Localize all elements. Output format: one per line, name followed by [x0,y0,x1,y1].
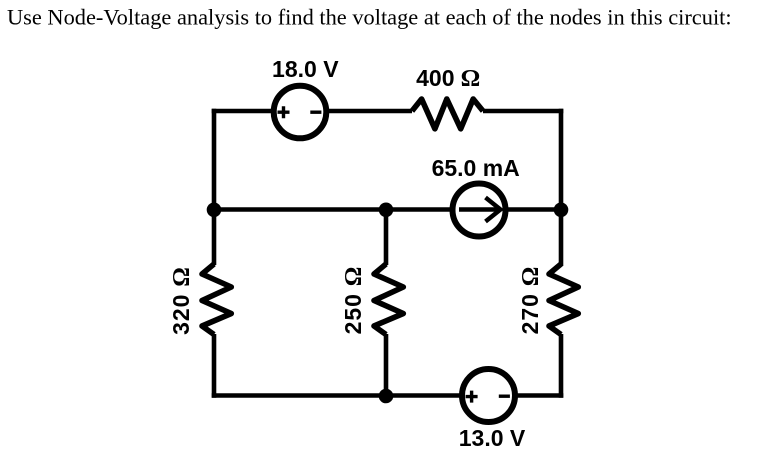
resistor R 250 ohm (middle, vertical zigzag) [374,264,403,335]
node A (left middle junction) [207,203,222,218]
I1 arrow head [486,198,501,222]
node D (bottom center junction) [379,389,394,404]
wire right vertical lower (R 270 down to bottom-right corner) [559,334,564,398]
wire bottom right (V2 to bottom-right corner) [515,393,563,398]
wire left vertical lower (R 320 down to bottom-left corner) [212,334,217,398]
svg-text:320 Ω: 320 Ω [168,266,195,335]
svg-text:13.0 V: 13.0 V [459,425,526,451]
V2 plus sign [466,391,478,403]
svg-text:250 Ω: 250 Ω [340,266,367,335]
wire left vertical upper (top-left corner down to R 320) [212,109,217,265]
V1 minus sign [310,110,321,113]
wire middle horizontal right (current source to node C) [505,207,563,212]
resistor R 400 ohm (top, horizontal zigzag) [412,99,483,129]
svg-text:65.0 mA: 65.0 mA [432,155,520,181]
voltage source V2 13.0 V circle [462,369,515,422]
voltage source V1 18.0 V circle [274,86,327,139]
resistor R 320 ohm (left, vertical zigzag) [202,264,231,335]
node C (right middle junction) [554,203,569,218]
I1 arrow shaft [459,207,497,211]
wire right vertical upper (top-right corner down to R 270) [559,109,564,266]
V2 minus sign [499,395,510,398]
svg-text:270 Ω: 270 Ω [517,266,544,335]
wire middle horizontal left (node A to current source) [212,207,453,212]
node B (center middle junction) [379,203,394,218]
wire top (V1 to R 400 zigzag) [326,109,412,114]
svg-text:Use Node-Voltage analysis to f: Use Node-Voltage analysis to find the vo… [7,5,732,30]
svg-text:400 Ω: 400 Ω [416,65,480,92]
resistor R 270 ohm (right, vertical zigzag) [549,264,578,335]
wire middle vertical lower (R 250 down to node D) [384,334,389,398]
wire top-right (R 400 to right corner) [483,109,563,114]
svg-text:18.0 V: 18.0 V [272,56,339,82]
V1 plus sign [278,106,290,118]
wire bottom left (bottom-left corner to V2) [212,393,463,398]
current source I1 65.0 mA circle [453,184,506,237]
wire top-left horizontal (node A to V1) [212,109,274,114]
wire middle vertical (node B down to R 250) [384,207,389,265]
